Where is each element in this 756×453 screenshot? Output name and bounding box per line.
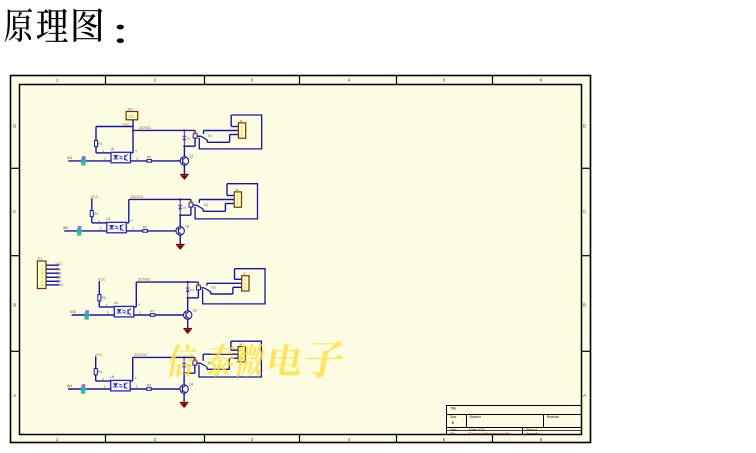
wire opto pin4 to bus [135,282,137,307]
resistor R3 [98,295,101,301]
svg-text:VCC: VCC [95,353,103,357]
svg-text:P1: P1 [38,257,42,261]
wire loop to connector pin 1 [234,269,236,280]
wire arm to connector pin 3 [206,140,208,142]
ground [183,328,192,330]
wire ZD/VDC bus [129,198,191,200]
wire resistor to Q base [152,160,181,162]
wire opto pin4 stub [134,306,137,308]
wire input to opto pin 2 [64,230,107,232]
wire resistor to Q base [151,388,180,390]
relay K1 coil [194,130,196,134]
wire P1 pin 6 [46,284,59,286]
wire ZD/VDC bus [136,281,198,283]
svg-text:R7: R7 [150,309,154,313]
wire arm to connector pin 3 [210,292,212,294]
svg-text:R8: R8 [147,383,151,387]
wire loop to connector pin 1 [230,341,232,350]
wire outer loop [199,115,261,149]
connector J2 [234,192,241,207]
wire common to connector pin 2 [199,199,234,201]
junction dot bus [132,129,134,131]
relay K1 contact [197,135,201,137]
svg-text:IN1: IN1 [67,156,72,160]
wire P1 pin 2 [46,268,59,270]
wire input to opto pin 2 [68,388,111,390]
wire opto pin4 to bus [132,357,134,381]
svg-text:ZD/VDC: ZD/VDC [138,278,151,282]
svg-text:Q4: Q4 [189,383,193,387]
wire common to connector pin 2 [204,130,239,132]
svg-text:IN3: IN3 [70,310,75,314]
wire emitter [179,235,181,244]
wire ZD/VDC bus [133,129,195,131]
wire loop to connector pin 1 [226,184,228,196]
svg-text:K2: K2 [204,203,208,207]
wire to opto pin 1 [92,222,107,224]
sheet inner border [20,85,582,435]
wire opto pin 3 to resistor [131,160,148,162]
schematic sheet background [11,76,591,443]
svg-text:J4: J4 [239,343,243,347]
svg-text:ZD/VDC: ZD/VDC [139,126,152,130]
wire arm to connector pin 3 [202,209,204,211]
relay K3 coil [197,282,199,286]
wire NO contact [203,131,205,134]
optocoupler U3 [114,306,134,317]
junction dot [179,214,181,216]
svg-text:R6: R6 [143,225,147,229]
transistor Q4 [180,385,188,393]
wire P1 pin 1 [46,264,59,266]
wire collector [183,373,185,385]
ground [180,174,189,176]
svg-text:U1: U1 [111,147,115,151]
wire opto pin 3 to resistor [134,314,151,316]
optocoupler U2 [107,222,127,233]
connector P1 (input header) [37,261,46,289]
svg-text:R1: R1 [98,142,102,146]
sheet zone labels [13,78,586,442]
connector JP1 (power input) [126,112,138,120]
svg-text:B: B [13,303,16,308]
wire arm to connector pin 3 [206,367,208,369]
svg-text:GND: GND [56,283,64,287]
svg-text:Q1: Q1 [189,155,193,159]
connector J4 [238,347,245,362]
wire P1 pin 3 [46,272,59,274]
diode D3 [186,282,190,298]
wire loop to connector pin 1 [230,115,232,127]
optocoupler U4 [111,380,131,391]
svg-text:JP1: JP1 [128,107,134,111]
wire P1 pin 4 [46,276,59,278]
svg-text:D: D [583,123,586,128]
junction dot [183,372,185,374]
resistor R8 [147,388,152,391]
wire collector [183,146,185,157]
svg-text:J1: J1 [239,119,243,123]
wire emitter [183,165,185,174]
svg-text:Revision: Revision [547,415,559,419]
svg-text:E:\xiangmu\jidianqimokuai.ddb: E:\xiangmu\jidianqimokuai.ddb [469,431,510,435]
wire emitter [183,393,185,402]
diode D2 [178,199,182,215]
title block [447,406,582,435]
svg-text:VCC: VCC [122,123,130,127]
svg-text:B: B [583,303,586,308]
svg-text:VCC: VCC [129,114,135,118]
transistor Q2 [176,227,184,235]
wire P1 pin 5 [46,280,59,282]
wire VCC vertical to R [91,198,93,223]
resistor R4 [94,369,97,375]
wire to opto pin 1 [99,306,114,308]
relay K4 coil [194,357,196,361]
svg-text:ZD/VDC: ZD/VDC [135,353,148,357]
svg-text:J2: J2 [235,188,239,192]
wire NO contact [198,200,200,203]
wire JP1 pin to VCC rail and bus [132,120,134,153]
svg-text:Q2: Q2 [185,225,189,229]
resistor R7 [150,314,155,317]
svg-text:R5: R5 [147,155,151,159]
wire outer loop [195,184,257,219]
wire opto pin4 stub [130,380,133,382]
wire outer loop [199,341,261,377]
svg-text:J3: J3 [243,272,247,276]
junction dot [179,198,181,200]
svg-text:D2: D2 [183,205,187,209]
svg-text:A: A [13,393,16,398]
transistor Q3 [184,311,192,319]
junction dot [187,281,189,283]
svg-text:R3: R3 [102,296,106,300]
wire resistor to Q base [155,314,184,316]
watermark 信泰微电子 [166,341,347,378]
junction dot [187,297,189,299]
port IN2 [78,226,82,228]
transistor Q1 [180,157,188,165]
svg-text:VCC: VCC [98,278,106,282]
wire NO contact [206,283,208,285]
port IN4 [82,384,86,386]
wire NO contact [202,354,204,361]
svg-text:R4: R4 [98,370,102,374]
wire common to connector pin 2 [207,282,242,284]
junction dot [183,356,185,358]
relay K3 contact [200,287,204,289]
wire opto pin 3 to resistor [126,230,143,232]
wire opto pin4 to bus [128,199,130,222]
svg-text:Q3: Q3 [193,309,197,313]
svg-text:File:: File: [450,431,456,435]
relay K2 contact [193,204,197,206]
wire opto pin 3 to resistor [130,388,147,390]
svg-text:Drawn By:: Drawn By: [526,431,540,435]
connector J3 [242,276,249,291]
port IN3 [85,310,89,312]
svg-text:IN2: IN2 [63,226,68,230]
svg-text:U2: U2 [106,217,110,221]
junction dot [183,145,185,147]
wire resistor to Q base [147,230,176,232]
page title 原理图： [5,8,124,43]
diode D1 [182,130,186,146]
wire VCC vertical to R [98,281,100,307]
wire collector [187,298,189,311]
resistor R5 [147,160,152,163]
svg-text:C: C [13,209,16,214]
svg-text:U4: U4 [110,375,114,379]
wire input to opto pin 2 [68,160,111,162]
wire VCC rail [96,126,133,128]
wire opto pin4 stub [126,222,129,224]
svg-text:Size: Size [450,415,456,419]
wire outer loop [203,269,265,304]
relay K2 coil [190,199,192,203]
resistor R6 [143,230,148,233]
svg-text:VCC: VCC [91,195,99,199]
svg-text:D3: D3 [190,288,194,292]
ground [180,402,189,404]
wire to opto pin 1 [96,152,111,154]
connector J1 [238,123,245,138]
sheet zone tick marks [11,76,591,443]
wire ZD/VDC bus [133,356,195,358]
wire opto pin4 stub [131,152,134,154]
wire VCC vertical to R [95,127,97,153]
wire VCC vertical to R [95,356,97,381]
relay K4 contact [197,362,201,364]
svg-text:R2: R2 [94,212,98,216]
svg-text:D: D [13,123,16,128]
wire input to opto pin 2 [72,314,115,316]
wire emitter [187,319,189,328]
ground [176,244,185,246]
port IN1 [82,156,86,158]
svg-text:A: A [583,393,586,398]
svg-text:U3: U3 [114,301,118,305]
resistor R1 [95,141,98,147]
optocoupler U1 [111,152,131,163]
svg-text:IN4: IN4 [67,384,72,388]
wire common to connector pin 2 [203,353,238,355]
svg-text:ZD/VDC: ZD/VDC [131,195,144,199]
svg-text:D1: D1 [187,136,191,140]
junction dot [183,129,185,131]
title block text [450,406,559,435]
diode D4 [182,357,186,373]
wire to opto pin 1 [96,380,111,382]
svg-text:C: C [583,209,586,214]
svg-text:Title: Title [450,406,456,410]
svg-text:Number: Number [470,415,482,419]
wire collector [179,215,181,227]
svg-text:K3: K3 [212,286,216,290]
resistor R2 [90,211,93,217]
svg-text:K1: K1 [208,134,212,138]
svg-text:VCC: VCC [56,262,64,266]
